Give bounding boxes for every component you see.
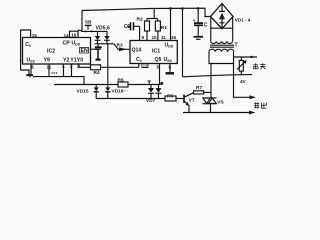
svg-text:Q14: Q14	[132, 48, 142, 54]
label output (输出)	[254, 102, 266, 108]
svg-text:VD16···: VD16···	[112, 89, 129, 95]
svg-text:R3: R3	[117, 43, 123, 49]
capacitor C	[194, 7, 203, 36]
switch SB	[85, 25, 93, 32]
wire plug bottom prong	[234, 74, 253, 76]
wire bottom distribution rail	[54, 84, 118, 86]
svg-text:VD5,6: VD5,6	[96, 26, 111, 32]
svg-text:8: 8	[169, 64, 172, 69]
capacitor C2	[127, 22, 140, 30]
resistor R2	[145, 19, 150, 41]
diode VD7a	[148, 85, 154, 99]
svg-text:SB: SB	[85, 19, 92, 24]
ground (cap C)	[194, 37, 204, 40]
wire IC2 pin3	[78, 64, 80, 67]
svg-text:VT: VT	[189, 97, 195, 103]
diode VD5	[95, 31, 101, 43]
wire R3 arrow to IC1	[114, 44, 130, 51]
svg-text:Y1: Y1	[70, 58, 76, 64]
svg-text:+: +	[193, 18, 196, 23]
svg-text:VS: VS	[217, 99, 224, 105]
transformer T primary winding	[209, 49, 234, 63]
wire IC1 pin5 down	[159, 64, 161, 85]
wire VD bottoms to VT base	[96, 98, 165, 100]
bridge rectifier VD1-4	[211, 4, 234, 29]
svg-text:11: 11	[161, 35, 166, 40]
wire IC1 pin12 elbow	[138, 64, 140, 68]
svg-text:Y0: Y0	[77, 58, 83, 64]
wire VD5/VD6 cathode bus	[95, 43, 115, 45]
svg-text:R2: R2	[137, 16, 143, 22]
svg-text:14: 14	[64, 33, 70, 38]
wire SB line	[81, 30, 108, 32]
wire R4 row	[79, 66, 139, 68]
svg-text:5: 5	[157, 64, 160, 69]
node dot VD7a top	[147, 81, 151, 85]
svg-text:Q5: Q5	[155, 57, 162, 63]
resistor R6	[118, 82, 128, 87]
wire IC2 pin2	[71, 64, 73, 77]
label plug (插头)	[253, 63, 265, 69]
svg-text:VD1 - 4: VD1 - 4	[235, 18, 251, 23]
resistor R4	[91, 65, 101, 70]
resistor R1	[155, 19, 160, 41]
wire IC2 pin4	[63, 64, 65, 77]
transistor VT	[184, 93, 194, 113]
svg-text:C2: C2	[124, 24, 131, 30]
svg-text:C: C	[204, 22, 208, 28]
wire plug top prong	[234, 56, 258, 58]
dots ellipsis	[51, 72, 57, 73]
transformer core	[210, 45, 234, 47]
wire left return	[21, 30, 31, 74]
IC2 pin16 box	[70, 31, 79, 37]
wire bottom collector to rail	[33, 77, 84, 85]
wire rail to R1/R2 tops	[153, 9, 155, 19]
svg-text:9: 9	[142, 35, 145, 40]
svg-text:3: 3	[77, 64, 80, 69]
svg-text:R6: R6	[118, 78, 124, 84]
resistor R5	[165, 96, 176, 101]
thyristor VS	[203, 98, 217, 113]
wire primary right lead down	[233, 64, 235, 75]
svg-text:11: 11	[47, 64, 52, 69]
wire bottom output rail	[183, 111, 256, 115]
diode VD7b	[156, 85, 162, 99]
wire rail to IC1 pin16	[170, 9, 172, 41]
resistor R7	[194, 91, 204, 94]
svg-text:R7: R7	[196, 85, 202, 91]
svg-text:10: 10	[152, 35, 158, 40]
svg-text:2: 2	[70, 64, 73, 69]
diode VD15	[94, 85, 99, 99]
transformer T secondary winding	[211, 17, 233, 44]
svg-text:4V: 4V	[240, 79, 247, 84]
diode VD16	[105, 85, 110, 99]
wire EN to C1 node	[91, 48, 99, 50]
diode VD6	[104, 31, 110, 43]
IC1	[130, 41, 177, 64]
wire rail drop x182.5 to plug return	[182, 9, 184, 77]
svg-text:VD15: VD15	[77, 89, 89, 95]
wire plug to output arrow	[234, 75, 257, 100]
ground (IC2 pin8)	[26, 64, 33, 77]
svg-text:16: 16	[71, 33, 77, 38]
node dot pin5/rail	[160, 82, 163, 85]
ground (IC1 pin8)	[166, 64, 175, 74]
svg-text:R1: R1	[161, 25, 167, 31]
wire node to bottom rail (VD16 branch)	[107, 44, 109, 85]
svg-text:VD7: VD7	[146, 98, 156, 104]
svg-text:IC1: IC1	[152, 49, 160, 55]
IC2	[23, 38, 91, 65]
wire rail to IC2 pin16	[79, 11, 83, 32]
svg-text:Y2: Y2	[63, 58, 69, 64]
svg-text:CP: CP	[63, 41, 71, 47]
wire top VDD rail	[82, 8, 211, 16]
wire IC2 pin11	[48, 64, 50, 77]
svg-text:IC2: IC2	[47, 49, 55, 55]
capacitor C1	[95, 44, 102, 60]
svg-text:8: 8	[31, 64, 34, 69]
svg-text:R4: R4	[94, 70, 100, 76]
wire primary left lead down	[210, 64, 212, 98]
svg-text:Y9: Y9	[44, 58, 50, 64]
svg-text:R5: R5	[167, 93, 173, 99]
lamp HL	[237, 57, 247, 75]
svg-text:16: 16	[171, 35, 177, 40]
wire R7 to primary lead	[204, 91, 211, 93]
svg-text:15: 15	[32, 33, 38, 38]
wire C2 to IC1 pin9	[139, 26, 141, 40]
svg-text:4: 4	[62, 64, 65, 69]
